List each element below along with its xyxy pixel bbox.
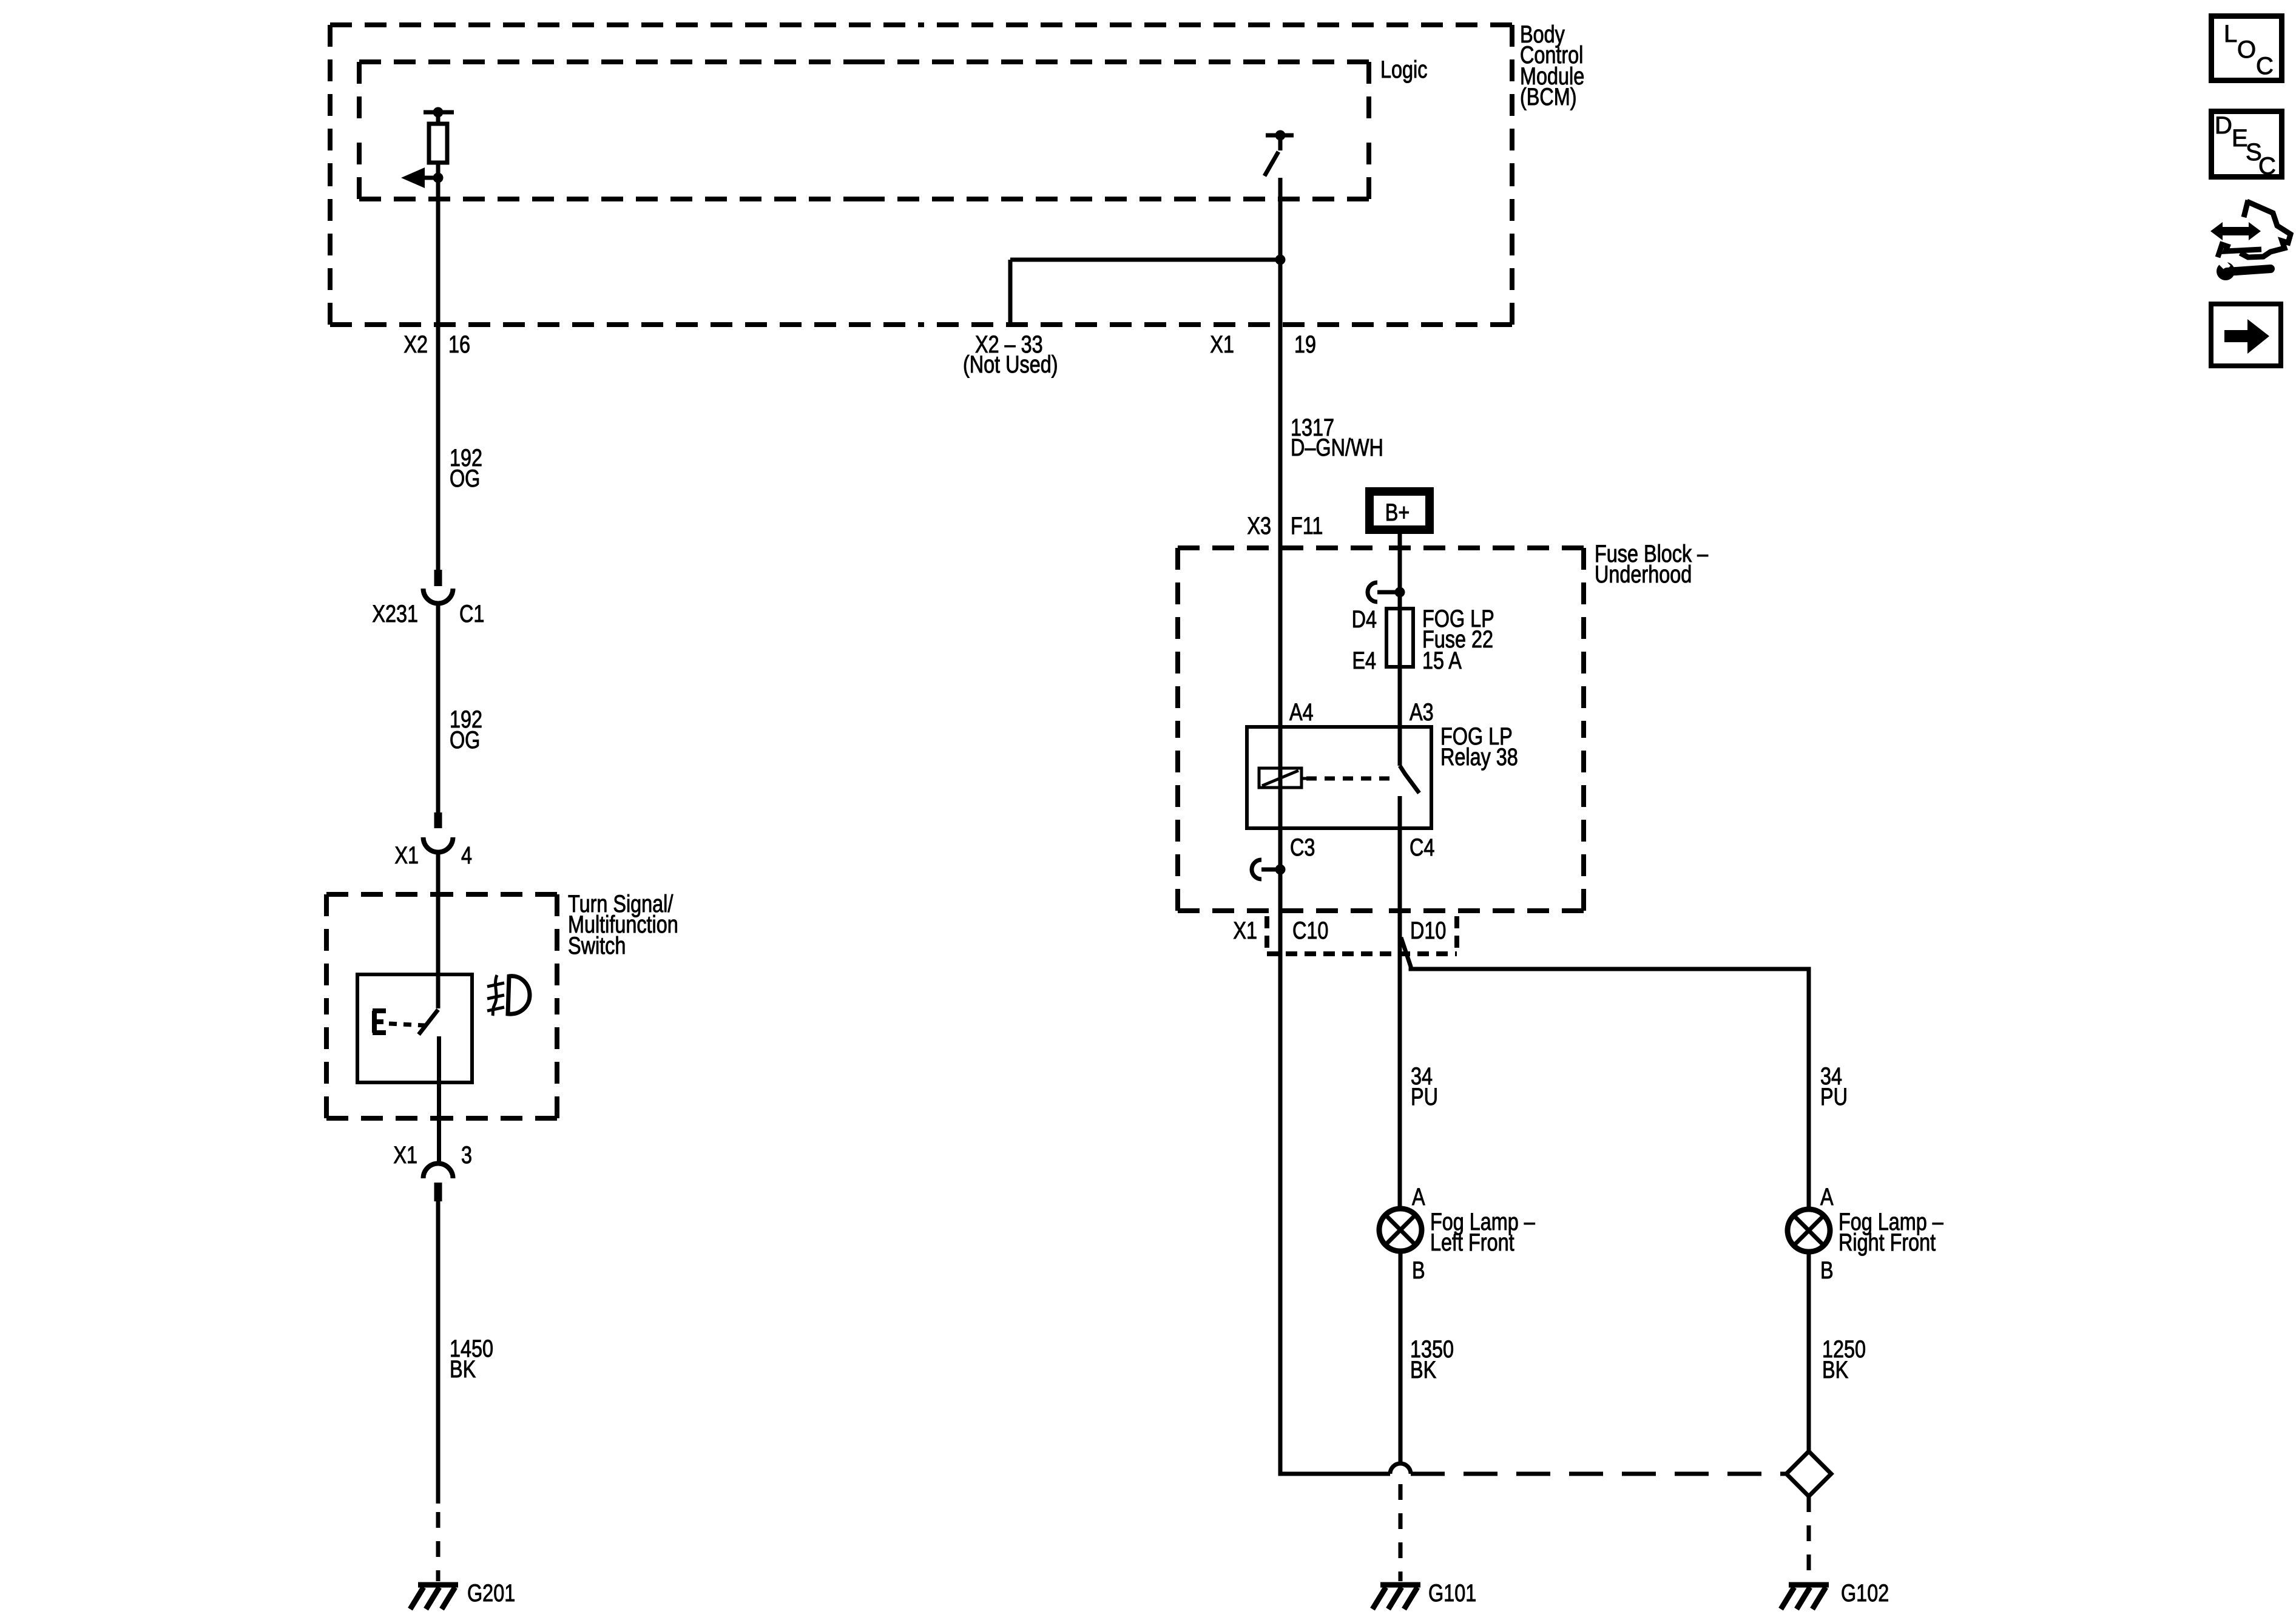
switch linkage dashed <box>389 1024 425 1025</box>
label G102 <box>1841 1579 1889 1607</box>
svg-text:L: L <box>2224 21 2237 47</box>
wire branch D10 to right fog lamp <box>1401 937 1809 1209</box>
icon diagnostic arrow <box>2210 222 2261 240</box>
svg-text:C4: C4 <box>1410 834 1434 861</box>
dashed ground bus <box>1411 1472 1786 1476</box>
icon LOC box <box>2212 16 2282 81</box>
svg-text:D–GN/WH: D–GN/WH <box>1291 434 1383 461</box>
connector hook (C3) <box>1252 860 1286 879</box>
junction dot X2-16 node <box>433 173 444 183</box>
fog lamp left front <box>1379 1209 1422 1251</box>
svg-text:X1: X1 <box>394 842 419 869</box>
label X3 | F11 <box>1247 512 1323 539</box>
svg-text:G101: G101 <box>1428 1579 1476 1607</box>
relay coil <box>1259 768 1306 788</box>
dashed wire to G201 <box>436 1512 441 1581</box>
connector X1 pin 3 <box>424 1164 453 1202</box>
relay linkage dashed <box>1306 777 1396 781</box>
label 192 OG (upper) <box>450 444 482 492</box>
resistor (BCM fog lamp driver) <box>429 112 447 178</box>
svg-text:C10: C10 <box>1292 917 1328 944</box>
svg-text:O: O <box>2237 36 2256 63</box>
label FOG LP Fuse 22 15 A <box>1422 605 1494 674</box>
label Fog Lamp - Right Front <box>1838 1208 1943 1256</box>
svg-text:X2: X2 <box>403 331 428 358</box>
icon wrench <box>2215 258 2271 280</box>
battery feed B+ box <box>1369 491 1430 530</box>
label A4 | A3 <box>1289 698 1434 726</box>
svg-text:Relay 38: Relay 38 <box>1440 743 1518 771</box>
label pin A (right) <box>1820 1183 1834 1210</box>
svg-text:D10: D10 <box>1410 917 1446 944</box>
connector X1 pin 4 <box>424 812 453 852</box>
svg-text:BK: BK <box>450 1355 476 1383</box>
node: driver supply tick <box>424 107 454 118</box>
label X1 | 4 <box>394 842 472 869</box>
fog lamp icon (switch position) <box>487 975 530 1016</box>
svg-text:X1: X1 <box>393 1141 417 1169</box>
label FOG LP Relay 38 <box>1440 723 1518 771</box>
svg-text:F11: F11 <box>1291 512 1323 539</box>
svg-text:X1: X1 <box>1233 917 1257 944</box>
wire 1350 BK <box>1399 1251 1403 1463</box>
svg-text:BK: BK <box>1410 1356 1436 1383</box>
label 34 PU (left) <box>1411 1062 1438 1110</box>
svg-text:B+: B+ <box>1385 499 1410 526</box>
connector hook (B+ feed) <box>1368 582 1405 602</box>
svg-text:X1: X1 <box>1210 331 1234 358</box>
icon diagnostic outline <box>2218 200 2291 257</box>
svg-text:B: B <box>1820 1257 1834 1284</box>
label D4 | E4 <box>1352 606 1377 674</box>
label X1 | 19 <box>1210 331 1316 358</box>
label X2-33 (Not Used) <box>963 331 1058 378</box>
icon DESC box <box>2212 112 2282 180</box>
svg-text:A3: A3 <box>1410 698 1434 726</box>
connector X1 C10 D10 box <box>1267 916 1457 954</box>
label X1 | 3 <box>393 1141 472 1169</box>
svg-text:Right Front: Right Front <box>1838 1229 1936 1256</box>
svg-text:C1: C1 <box>459 600 484 627</box>
label 1350 BK <box>1410 1335 1454 1383</box>
wire 1450 BK <box>436 1201 441 1504</box>
svg-text:Switch: Switch <box>568 932 626 959</box>
label X2 | 16 <box>403 331 470 358</box>
wire relay C4 to left fog lamp <box>1398 828 1402 1209</box>
svg-text:15 A: 15 A <box>1422 647 1462 674</box>
BCM Logic inner dashed box <box>359 62 1369 199</box>
svg-text:C3: C3 <box>1290 834 1315 861</box>
ground G101 <box>1373 1585 1420 1609</box>
label Logic <box>1380 56 1427 83</box>
svg-text:Logic: Logic <box>1380 56 1427 83</box>
label 1317 D-GN/WH <box>1291 414 1383 461</box>
switch blade (fog lamp switch) <box>419 1010 439 1082</box>
wire 1250 BK <box>1807 1252 1811 1451</box>
wire 192 OG (lower) <box>436 604 441 812</box>
svg-text:OG: OG <box>450 726 480 754</box>
wire 192 OG from BCM X2-16 <box>436 178 441 570</box>
splice diamond <box>1786 1451 1831 1496</box>
label G201 <box>467 1579 515 1607</box>
svg-text:Underhood: Underhood <box>1595 561 1692 588</box>
svg-text:G201: G201 <box>467 1579 515 1607</box>
wire X1-19 trunk to ground bus <box>1280 178 1390 1474</box>
switch (BCM logic output X1-19) <box>1264 135 1280 176</box>
wire B+ to relay A3 <box>1398 534 1402 766</box>
signal arrow (driver output) <box>401 167 438 188</box>
label 1250 BK <box>1822 1335 1866 1383</box>
svg-text:PU: PU <box>1411 1083 1438 1110</box>
wire into multifunction switch <box>436 852 441 1008</box>
svg-text:16: 16 <box>448 331 470 358</box>
wire X2-33 branch <box>1010 260 1280 325</box>
relay FOG LP Relay 38 box <box>1247 727 1431 828</box>
svg-text:OG: OG <box>450 465 480 492</box>
svg-text:(BCM): (BCM) <box>1520 83 1577 110</box>
Fuse Block - Underhood dashed box <box>1178 548 1584 911</box>
dashed wire to G101 <box>1399 1484 1403 1581</box>
ground G102 <box>1781 1585 1829 1609</box>
svg-text:D4: D4 <box>1352 606 1377 633</box>
label G101 <box>1428 1579 1476 1607</box>
label Turn Signal/Multifunction Switch <box>568 890 678 959</box>
label pin B (right) <box>1820 1257 1834 1284</box>
wire hop over 1350 BK <box>1390 1463 1411 1474</box>
label C3 | C4 <box>1290 834 1434 861</box>
svg-text:A: A <box>1412 1183 1425 1210</box>
fuse FOG LP Fuse 22 <box>1386 609 1413 667</box>
svg-text:A: A <box>1820 1183 1834 1210</box>
label Fog Lamp - Left Front <box>1430 1208 1535 1256</box>
wire to X1 pin 3 <box>437 1082 441 1164</box>
svg-text:B: B <box>1412 1257 1425 1284</box>
label pin B (left) <box>1412 1257 1425 1284</box>
svg-text:4: 4 <box>461 842 472 869</box>
fog lamp switch box <box>357 974 472 1082</box>
svg-text:D: D <box>2215 112 2232 139</box>
ground G201 <box>410 1585 458 1609</box>
label pin A (left) <box>1412 1183 1425 1210</box>
svg-text:Left Front: Left Front <box>1430 1229 1514 1256</box>
svg-text:C: C <box>2258 153 2276 180</box>
label 192 OG (lower) <box>450 706 482 754</box>
fog lamp right front <box>1788 1209 1830 1252</box>
connector X231 C1 <box>424 570 453 603</box>
svg-text:PU: PU <box>1820 1083 1848 1110</box>
switch detent E symbol <box>373 1011 386 1033</box>
svg-text:G102: G102 <box>1841 1579 1889 1607</box>
svg-text:X3: X3 <box>1247 512 1271 539</box>
svg-text:X231: X231 <box>372 600 418 627</box>
junction dot X1-19/X2-33 <box>1275 255 1286 265</box>
label X1 | C10 | D10 <box>1233 917 1446 944</box>
Turn Signal/Multifunction Switch dashed box <box>326 894 557 1118</box>
svg-text:3: 3 <box>461 1141 472 1169</box>
svg-text:(Not Used): (Not Used) <box>963 351 1058 378</box>
svg-text:A4: A4 <box>1289 698 1314 726</box>
label 34 PU (right) <box>1820 1062 1848 1110</box>
label X231 | C1 <box>372 600 484 627</box>
icon go-to arrow box <box>2211 304 2281 366</box>
svg-text:19: 19 <box>1294 331 1316 358</box>
svg-text:BK: BK <box>1822 1356 1848 1383</box>
label 1450 BK <box>450 1335 493 1383</box>
relay switch blade <box>1400 766 1419 828</box>
dashed wire to G102 <box>1807 1496 1811 1581</box>
node: switch supply tick <box>1266 130 1294 141</box>
label Body Control Module (BCM) <box>1520 21 1584 110</box>
Body Control Module (BCM) outer dashed box <box>330 25 1512 325</box>
svg-text:C: C <box>2256 53 2274 79</box>
svg-text:E4: E4 <box>1352 647 1376 674</box>
label Fuse Block - Underhood <box>1595 540 1709 588</box>
